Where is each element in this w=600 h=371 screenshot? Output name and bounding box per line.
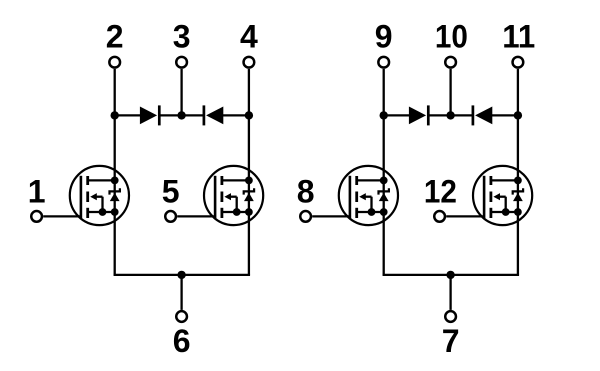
- Q3 gate bar: [349, 176, 352, 218]
- transistor Q4 (N-channel MOSFET with body zener diode): [473, 166, 532, 225]
- wire pin 2 down to top rail: [114, 69, 116, 116]
- Q2 body arrow (pointing to channel): [224, 193, 231, 200]
- wire top rail to Q4 drain: [517, 115, 519, 179]
- wire top rail to Q3 drain: [383, 115, 385, 179]
- Q4 drain stub: [491, 179, 518, 181]
- wire bottom rail (Q1 source to Q2 source): [114, 274, 251, 276]
- svg-text:10: 10: [435, 19, 468, 55]
- Q1 body arrow (pointing to channel): [90, 193, 97, 200]
- transistor Q2 (N-channel MOSFET with body zener diode): [204, 166, 263, 225]
- wire Q2 drain-source (body diode path): [248, 180, 250, 212]
- svg-text:5: 5: [162, 173, 180, 209]
- junction dot: bottom rail / pin 7: [446, 271, 454, 279]
- Q2 body zener diode cathode bar: [244, 188, 254, 194]
- Q2 body-source junction dot: [233, 208, 241, 216]
- wire Q4 source to bottom rail: [517, 212, 519, 275]
- wire Q2 source to bottom rail: [248, 212, 250, 275]
- wire bottom rail (Q3 source to Q4 source): [383, 274, 520, 276]
- wire bottom rail to pin 6: [180, 275, 182, 310]
- junction dot: pin 11 / D4 anode / Q4 drain: [514, 111, 522, 119]
- Q2 source junction dot: [245, 208, 253, 216]
- Q2 gate bar: [214, 176, 217, 218]
- Q1 channel segment (source side): [86, 208, 89, 218]
- wire Q1 source to bottom rail: [114, 212, 116, 275]
- wire Q3 source to bottom rail: [383, 212, 385, 275]
- diode D2 (anode right, cathode at center node): [206, 107, 223, 125]
- wire pin 10 down to diode cathode node: [449, 69, 451, 116]
- Q4 channel segment (body): [489, 192, 492, 203]
- Q2 drain junction dot: [245, 177, 253, 185]
- Q2 envelope circle: [204, 166, 263, 225]
- wire pin 12 to Q4 gate: [446, 215, 484, 217]
- junction dot: pin 9 / D3 anode / Q3 drain: [380, 111, 388, 119]
- Q1 source junction dot: [111, 208, 119, 216]
- wire top rail right segment: [491, 114, 518, 116]
- Q2 source stub: [222, 211, 249, 213]
- junction dot: pin 4 / D2 anode / Q2 drain: [245, 111, 253, 119]
- Q4 drain junction dot: [514, 177, 522, 185]
- svg-text:8: 8: [297, 173, 315, 209]
- svg-text:11: 11: [502, 19, 535, 55]
- Q2 body-to-source wire: [236, 197, 238, 212]
- Q1 gate bar: [80, 176, 83, 218]
- Q4 body-source junction dot: [502, 208, 510, 216]
- pin 11 terminal: [513, 57, 524, 68]
- wire top rail left segment: [384, 114, 410, 116]
- Q1 source stub: [88, 211, 115, 213]
- wire pin 4 down to top rail: [248, 69, 250, 116]
- Q3 channel segment (body): [355, 192, 358, 203]
- Q1 drain junction dot: [111, 177, 119, 185]
- svg-text:1: 1: [28, 173, 46, 209]
- pin 6 terminal: [176, 311, 187, 322]
- Q1 channel segment (body): [86, 192, 89, 203]
- Q4 gate bar: [483, 176, 486, 218]
- Q4 body zener diode triangle: [513, 193, 523, 201]
- pin 3 terminal: [176, 57, 187, 68]
- transistor Q1 (N-channel MOSFET with body zener diode): [70, 166, 129, 225]
- wire Q1 drain-source (body diode path): [114, 180, 116, 212]
- Q4 source junction dot: [514, 208, 522, 216]
- Q4 envelope circle: [473, 166, 532, 225]
- junction dot: pin 3 / diode cathodes: [177, 111, 185, 119]
- Q1 body-source junction dot: [99, 208, 107, 216]
- Q3 body arrow (pointing to channel): [359, 193, 366, 200]
- Q1 body zener diode triangle: [110, 193, 120, 201]
- pin 8 terminal: [300, 211, 311, 222]
- junction dot: bottom rail / pin 6: [177, 271, 185, 279]
- Q2 channel segment (body): [220, 192, 223, 203]
- Q1 envelope circle: [70, 166, 129, 225]
- wire top rail right segment: [222, 114, 249, 116]
- pin 9 terminal: [378, 57, 389, 68]
- wire top rail left segment: [115, 114, 141, 116]
- Q4 channel segment (source side): [489, 208, 492, 218]
- Q3 source junction dot: [380, 208, 388, 216]
- pin 10 terminal: [445, 57, 456, 68]
- Q2 channel segment (drain side): [220, 176, 223, 185]
- Q4 body zener diode cathode bar: [513, 188, 523, 194]
- Q3 drain stub: [357, 179, 384, 181]
- Q1 channel segment (drain side): [86, 176, 89, 185]
- diode D1 (anode left, cathode at center node): [140, 107, 157, 125]
- Q3 source stub: [357, 211, 384, 213]
- wire Q3 drain-source (body diode path): [383, 180, 385, 212]
- wire pin 11 down to top rail: [517, 69, 519, 116]
- wire pin 8 to Q3 gate: [312, 215, 350, 217]
- svg-text:6: 6: [173, 323, 191, 359]
- wire top rail to Q1 drain: [114, 115, 116, 179]
- svg-text:12: 12: [424, 173, 457, 209]
- Q4 channel segment (drain side): [489, 176, 492, 185]
- svg-text:4: 4: [240, 19, 258, 55]
- Q3 body-to-source wire: [370, 197, 372, 212]
- wire pin 9 down to top rail: [383, 69, 385, 116]
- wire top rail center segment: [428, 114, 473, 116]
- Q2 body zener diode triangle: [244, 193, 254, 201]
- Q3 body zener diode cathode bar: [379, 188, 389, 194]
- svg-text:2: 2: [106, 19, 124, 55]
- svg-text:3: 3: [173, 19, 191, 55]
- wire pin 1 to Q1 gate: [43, 215, 81, 217]
- Q3 envelope circle: [339, 166, 398, 225]
- wire bottom rail to pin 7: [449, 275, 451, 310]
- wire Q4 drain-source (body diode path): [517, 180, 519, 212]
- pin 12 terminal: [434, 211, 445, 222]
- wire top rail to Q2 drain: [248, 115, 250, 179]
- Q1 drain stub: [88, 179, 115, 181]
- Q4 source stub: [491, 211, 518, 213]
- pin 5 terminal: [165, 211, 176, 222]
- pin 2 terminal: [109, 57, 120, 68]
- diode D4 (anode right, cathode at center node): [475, 107, 492, 125]
- Q4 body arrow (pointing to channel): [493, 193, 500, 200]
- Q3 body-source junction dot: [368, 208, 376, 216]
- Q3 drain junction dot: [380, 177, 388, 185]
- junction dot: pin 2 / D1 anode / Q1 drain: [111, 111, 119, 119]
- pin 1 terminal: [31, 211, 42, 222]
- junction dot: pin 10 / diode cathodes: [446, 111, 454, 119]
- Q3 channel segment (source side): [355, 208, 358, 218]
- pin 4 terminal: [244, 57, 255, 68]
- Q3 body zener diode triangle: [379, 193, 389, 201]
- diode D3 (anode left, cathode at center node): [409, 107, 426, 125]
- wire pin 3 down to diode cathode node: [180, 69, 182, 116]
- Q3 channel segment (drain side): [355, 176, 358, 185]
- wire pin 5 to Q2 gate: [177, 215, 215, 217]
- Q4 body-to-source wire: [505, 197, 507, 212]
- Q2 drain stub: [222, 179, 249, 181]
- svg-text:9: 9: [375, 19, 393, 55]
- Q1 body zener diode cathode bar: [110, 188, 120, 194]
- svg-text:7: 7: [442, 323, 460, 359]
- wire top rail center segment: [159, 114, 204, 116]
- transistor Q3 (N-channel MOSFET with body zener diode): [339, 166, 398, 225]
- Q2 channel segment (source side): [220, 208, 223, 218]
- Q1 body-to-source wire: [101, 197, 103, 212]
- pin 7 terminal: [445, 311, 456, 322]
